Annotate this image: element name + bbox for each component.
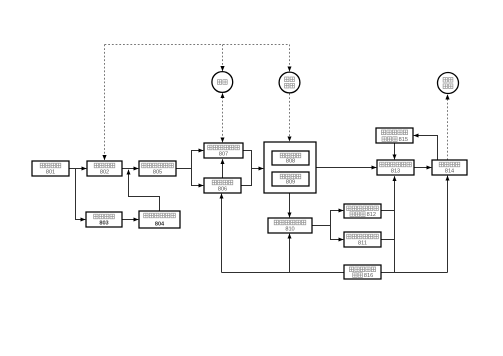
box 806 quotation [204,178,241,193]
label text: C3 finance mgmt line1 [443,78,453,83]
box 810 complaint handling [268,218,312,233]
wire: 803 to 804 arrow [122,219,138,221]
label text: shou-kuan-zuo-ye [439,162,460,167]
label text: zuo-ye 816 [353,273,374,279]
wire: 804 top up into 802-805 line [129,170,160,211]
box 814 collection [432,160,467,175]
box 812 sales return allowance [344,204,381,218]
wire: 806 up to 807 arrow [222,159,224,178]
label text: ying-shou-zhang-kuan-zuo-ye [380,162,412,167]
box 808 sales delivery [272,151,309,165]
svg-text:808: 808 [286,159,295,165]
wire: group box right to 813 arrow [316,167,376,169]
label text: xiao-shou-ji-hua [94,163,115,168]
label text: ye-wu-yuan-guan-li [349,267,375,272]
box 809 export sales [272,172,309,186]
svg-text:807: 807 [219,152,228,158]
svg-text:811: 811 [358,241,367,247]
wire: dashed drop into box 802 top [104,45,106,161]
label text: ding-dan-chu-li-zuo-ye [208,145,240,150]
wire: 805 right T-split up to 807 [176,151,203,169]
label text: shi-chang-ying-xiao-gui-hua [144,213,176,218]
wire: dashed double arrow C1 to box 807 [222,93,224,142]
box 803 marketing plan [86,212,122,227]
label text: shou-hou-fu-wu-zuo-ye [347,234,379,239]
svg-text:801: 801 [46,170,55,176]
svg-text:806: 806 [218,187,227,193]
svg-text:810: 810 [285,227,294,233]
wire: rail up into 810 bottom [289,234,291,273]
wire: 811 right to vertical bus [381,239,395,241]
svg-text:802: 802 [100,170,109,176]
label text: wai-xiao-zuo-ye [280,174,301,179]
wire: T-split to 811 [331,226,344,240]
label text: zheng-zuo-ye 815 [382,137,408,143]
wire: 815 down into 813 top [394,143,396,159]
wire: 801 to 802 arrow [69,168,86,170]
label text: ying-xiao-ji-hua [94,214,115,219]
label text: xin-yong-jian-he-zuo-ye [142,163,174,168]
wire: dashed drop into circle C2 top [289,45,291,72]
wire: group box bottom down to 810 arrow [289,193,291,217]
label text: C3 finance mgmt line2 [443,84,453,89]
label text: xiao-huo-zuo-ye [280,153,301,158]
svg-text:814: 814 [445,169,454,175]
wire: 813 to 814 arrow [414,167,431,169]
box 801 sales forecast [32,161,69,176]
label text: xiao-huo-tui-hui-ji-zhe [347,206,379,211]
wire: 810 right T-split to 812 [312,211,343,226]
svg-text:815: 815 [399,137,408,143]
svg-text:805: 805 [153,170,162,176]
label text: ying-shou-zhang-kuan-tiao [381,130,407,135]
wire: 807 right merge [243,151,252,169]
label text: bao-jia-zuo-ye [212,180,233,185]
wire: merged arrow into shipping group box [252,168,264,170]
wire: dashed arrow C2 down to shipping group box [289,94,291,142]
wire: 802 to 805 arrow [122,168,138,170]
circle C2 inventory mgmt [279,72,300,93]
wire: bottom rail [222,272,448,274]
svg-text:813: 813 [391,169,400,175]
label text: rang-zuo-ye 812 [350,212,376,218]
circle C1 production mgmt [212,72,233,93]
wire: dashed top rail [105,44,290,46]
wire: junction drop to 803 [76,169,86,220]
svg-text:816: 816 [364,273,373,279]
wire: vertical bus up into 813 bottom [394,176,396,272]
box 804 market promo planning [139,211,180,228]
wire: T-split down to 806 [192,169,204,186]
label text: C1 production mgmt [217,80,227,85]
label text: ke-su-chu-li-zuo-ye [274,220,306,225]
box 805 credit check [139,161,176,176]
svg-text:812: 812 [367,212,376,218]
box 811 after-sales service [344,232,381,247]
group box shipping [264,142,316,193]
wire: dashed arrow 814 up to circle C3 [447,95,449,161]
box 813 accounts receivable [377,160,414,175]
label text: C2 inventory mgmt line2 [285,83,295,88]
svg-text:809: 809 [286,180,295,186]
label text: C2 inventory mgmt line1 [285,77,295,82]
box 815 AR adjustment [376,128,413,143]
circle C3 finance mgmt [438,73,459,94]
svg-text:804: 804 [155,222,165,228]
wire: 812 right to vertical bus [381,210,395,212]
box 802 sales plan [87,161,122,176]
label text: xiao-shou-yu-ce [40,163,61,168]
wire: dashed drop into circle C1 top [222,45,224,72]
wire: rail up into 806 bottom [221,194,223,273]
svg-text:803: 803 [99,221,108,227]
box 807 order processing [204,143,243,158]
wire: 806 right merge [241,169,252,186]
wire: 814 top left into 815 right arrow [414,136,438,161]
wire: rail up into 814 bottom [447,176,449,273]
box 816 salesman management [344,265,381,279]
